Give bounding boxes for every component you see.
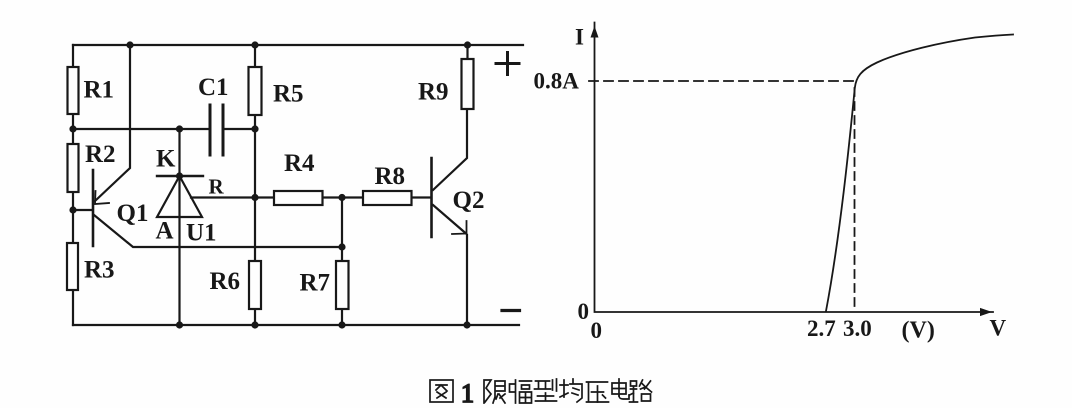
svg-text:R6: R6 bbox=[210, 268, 241, 295]
svg-text:R8: R8 bbox=[375, 163, 406, 190]
svg-text:R5: R5 bbox=[273, 81, 304, 108]
svg-text:I: I bbox=[575, 25, 584, 50]
svg-text:V: V bbox=[990, 316, 1007, 341]
svg-text:R3: R3 bbox=[84, 257, 115, 284]
svg-text:U1: U1 bbox=[186, 220, 217, 247]
svg-text:R4: R4 bbox=[284, 150, 315, 177]
svg-text:R2: R2 bbox=[85, 141, 116, 168]
svg-text:2.7: 2.7 bbox=[807, 316, 836, 341]
svg-text:A: A bbox=[156, 218, 174, 245]
svg-text:K: K bbox=[156, 146, 176, 173]
svg-text:R7: R7 bbox=[300, 270, 331, 297]
svg-text:R1: R1 bbox=[84, 77, 115, 104]
svg-text:R: R bbox=[209, 175, 225, 199]
svg-text:Q1: Q1 bbox=[117, 200, 149, 227]
svg-text:C1: C1 bbox=[198, 74, 229, 101]
svg-text:R9: R9 bbox=[418, 79, 449, 106]
svg-text:(V): (V) bbox=[902, 318, 935, 344]
svg-text:0: 0 bbox=[591, 318, 603, 343]
svg-text:3.0: 3.0 bbox=[843, 316, 872, 341]
svg-text:Q2: Q2 bbox=[453, 187, 485, 214]
svg-text:1: 1 bbox=[461, 379, 474, 408]
svg-text:0: 0 bbox=[578, 299, 590, 324]
svg-text:0.8A: 0.8A bbox=[534, 69, 580, 94]
